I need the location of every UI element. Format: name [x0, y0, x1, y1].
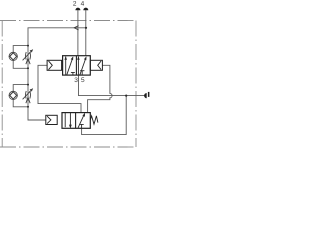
svg-text:5: 5 [81, 77, 85, 84]
svg-text:4: 4 [81, 1, 85, 8]
svg-text:2: 2 [73, 1, 77, 8]
svg-text:3: 3 [74, 77, 78, 84]
